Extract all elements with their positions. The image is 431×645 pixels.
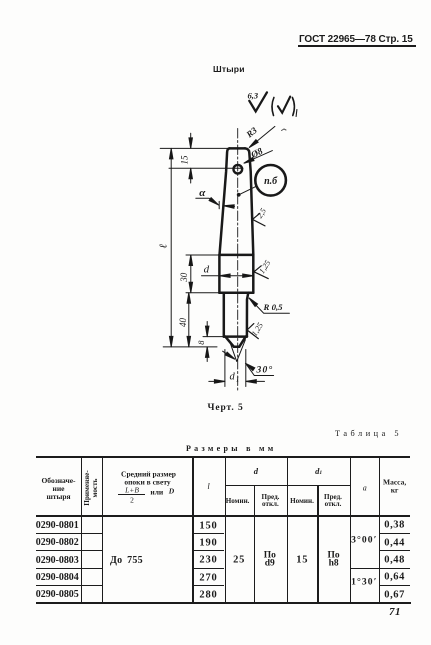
- body d1 nominal: [296, 554, 308, 565]
- body massa values: [384, 520, 405, 531]
- alpha leader: [196, 198, 219, 205]
- alpha right arrow: [225, 205, 235, 208]
- svg-text:15: 15: [179, 155, 189, 165]
- label Таблица 5: [335, 429, 402, 438]
- body l values: [199, 520, 217, 531]
- header d1: [315, 466, 322, 476]
- svg-text:30: 30: [179, 272, 189, 283]
- dimension 30 line: [190, 255, 192, 293]
- svg-text:α: α: [199, 187, 206, 199]
- roughness (v) check: [278, 97, 290, 113]
- row divider 4: [36, 585, 102, 586]
- table vertical line d1 sub: [317, 485, 318, 602]
- 30 degree left arrow: [223, 351, 234, 358]
- pin chamfer top line: [224, 335, 247, 338]
- dimension 8 arrows: [206, 322, 208, 337]
- header massa: [383, 478, 406, 493]
- header col1: [41, 477, 75, 501]
- svg-text:ℓ: ℓ: [159, 244, 170, 249]
- svg-text:2,5: 2,5: [255, 207, 268, 220]
- header l: [207, 481, 209, 491]
- svg-text:R3: R3: [244, 125, 260, 140]
- roughness (v) left paren: [272, 98, 274, 116]
- pin outline right side: [245, 148, 253, 255]
- extension line head top: [160, 147, 227, 149]
- extension line shoulder: [186, 254, 220, 256]
- svg-text:30°: 30°: [256, 365, 274, 376]
- pin middle cylinder bottom line: [219, 291, 253, 294]
- header col3: [121, 470, 176, 479]
- dimension 40 line: [188, 293, 190, 347]
- extension line hole level: [169, 167, 243, 169]
- header col2 rotated: [84, 470, 100, 505]
- 30 degree V lines: [231, 340, 246, 362]
- pin middle cylinder left wall: [218, 255, 221, 293]
- R3 leader: [250, 126, 275, 146]
- svg-text:1: 1: [236, 375, 240, 383]
- callout circle p.b: [255, 165, 286, 196]
- svg-text:8: 8: [196, 340, 206, 345]
- svg-text:40: 40: [178, 318, 188, 328]
- body До 755: [110, 555, 143, 566]
- header nominal d1: [290, 497, 314, 505]
- roughness 6,3 check symbol: [249, 92, 267, 111]
- roughness mark 1,25 middle: [254, 266, 268, 279]
- header pred otkl d: [262, 493, 280, 501]
- row divider 2: [36, 550, 102, 551]
- body alpha values: [351, 535, 377, 546]
- svg-text:R 0,5: R 0,5: [263, 302, 284, 312]
- roughness mark 1,25 lower: [247, 324, 258, 339]
- svg-text:1,25: 1,25: [257, 259, 272, 276]
- scan speck: [282, 129, 287, 131]
- 30 degree leader: [246, 364, 273, 375]
- dimension d1 extension lines: [224, 350, 226, 387]
- table vertical line col3: [192, 457, 193, 603]
- title Штыри: [213, 64, 245, 74]
- header pred otkl d1: [324, 493, 342, 501]
- callout leader: [240, 186, 257, 194]
- label Размеры в мм: [186, 444, 277, 453]
- svg-text:6,3: 6,3: [248, 90, 259, 100]
- pin outline left side: [220, 148, 230, 255]
- table vertical line col2: [102, 457, 103, 603]
- header d: [254, 466, 258, 476]
- table vertical line l|d: [225, 457, 226, 603]
- dimension d line: [202, 275, 254, 277]
- table header/body divider: [36, 515, 410, 517]
- diameter 8 leader: [245, 151, 273, 163]
- page header underline: [298, 45, 417, 47]
- table bottom border: [36, 602, 411, 604]
- header alpha: [363, 483, 367, 492]
- body designations: [36, 520, 79, 531]
- table vertical line d1|alpha: [350, 457, 351, 603]
- row divider 1: [36, 533, 102, 534]
- pin lower cylinder left wall: [223, 293, 226, 337]
- page number 71: [389, 606, 401, 618]
- roughness (v) right paren: [292, 98, 294, 116]
- pin hole: [234, 165, 243, 174]
- svg-text:d: d: [230, 372, 236, 383]
- pin middle cylinder right wall: [252, 255, 255, 293]
- page header text: [299, 34, 413, 45]
- center line: [237, 129, 239, 392]
- table top border: [36, 456, 410, 459]
- body d1 pred otkl: [328, 551, 340, 568]
- table vertical line alpha|massa: [379, 457, 380, 603]
- dimension 15 arrows: [190, 133, 192, 148]
- table vertical line col1: [81, 457, 82, 603]
- dimension d1 arrows: [209, 380, 225, 382]
- pin shoulder line: [220, 254, 254, 257]
- table subheader divider: [225, 485, 350, 486]
- body d nominal: [233, 554, 245, 565]
- body d pred otkl: [264, 551, 276, 568]
- extension line chamfer top: [203, 336, 224, 338]
- svg-text:d: d: [204, 264, 210, 276]
- table vertical line d|d1: [287, 457, 288, 603]
- caption Черт. 5: [208, 403, 244, 413]
- svg-text:п.б: п.б: [264, 176, 278, 187]
- header nominal d: [226, 497, 250, 505]
- roughness (v) subscript tick: [295, 110, 298, 117]
- row divider 3: [36, 568, 102, 569]
- pin outline top edge: [230, 147, 246, 150]
- pin tip: [225, 337, 245, 347]
- dimension l line: [170, 148, 172, 347]
- R 0,5 leader: [251, 300, 290, 314]
- roughness mark 2,5: [253, 213, 266, 226]
- extension line bottom: [163, 346, 217, 348]
- extension line mid bottom: [186, 292, 224, 294]
- svg-text:1,25: 1,25: [250, 321, 265, 338]
- pin lower cylinder right wall: [247, 293, 248, 337]
- alpha tick: [218, 201, 220, 208]
- table vertical line d sub: [254, 485, 255, 602]
